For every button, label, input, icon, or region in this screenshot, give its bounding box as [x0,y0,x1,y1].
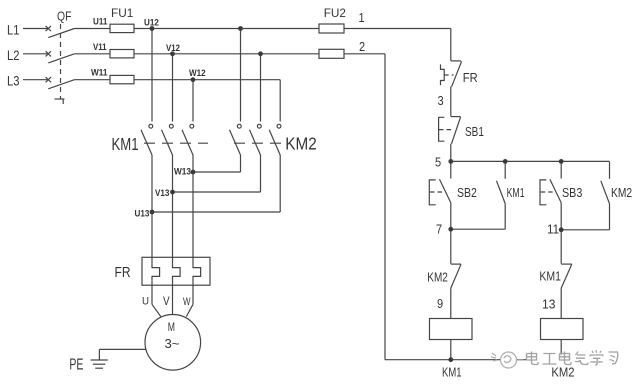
svg-text:KM2: KM2 [551,365,574,380]
svg-text:U13: U13 [135,208,150,219]
svg-text:KM1: KM1 [442,366,462,380]
svg-text:2: 2 [359,39,365,54]
svg-text:KM1: KM1 [539,271,561,284]
svg-text:KM2: KM2 [427,272,448,285]
svg-text:FU1: FU1 [111,6,133,20]
svg-text:W13: W13 [174,166,191,176]
svg-text:SB1: SB1 [465,126,484,139]
svg-text:KM1: KM1 [507,187,525,201]
svg-text:KM2: KM2 [611,187,632,200]
svg-text:U11: U11 [93,16,108,27]
svg-text:QF: QF [57,9,71,23]
svg-text:U12: U12 [144,17,159,28]
svg-text:L3: L3 [7,73,19,88]
svg-text:PE: PE [69,355,83,373]
svg-text:M: M [168,322,175,335]
svg-text:FR: FR [115,264,131,280]
svg-text:SB2: SB2 [457,187,477,200]
svg-text:V11: V11 [93,41,107,52]
svg-text:L1: L1 [7,22,19,37]
svg-text:V: V [163,295,170,308]
svg-text:5: 5 [435,155,441,170]
svg-text:KM2: KM2 [285,134,316,154]
svg-text:W: W [183,296,191,309]
svg-text:11: 11 [547,222,559,237]
svg-text:FR: FR [463,71,478,86]
svg-text:SB3: SB3 [562,186,582,200]
svg-text:7: 7 [436,222,442,237]
svg-text:V13: V13 [155,187,170,198]
svg-text:FU2: FU2 [324,6,346,20]
svg-text:9: 9 [437,296,443,311]
svg-text:W11: W11 [91,67,108,77]
svg-text:W12: W12 [189,68,206,79]
svg-text:KM1: KM1 [112,135,139,154]
svg-text:1: 1 [359,10,365,25]
svg-text:13: 13 [542,297,555,311]
svg-text:L2: L2 [7,48,19,63]
svg-text:3: 3 [438,93,444,108]
svg-text:V12: V12 [166,42,180,53]
svg-text:U: U [142,295,149,308]
svg-text:3~: 3~ [165,336,180,351]
